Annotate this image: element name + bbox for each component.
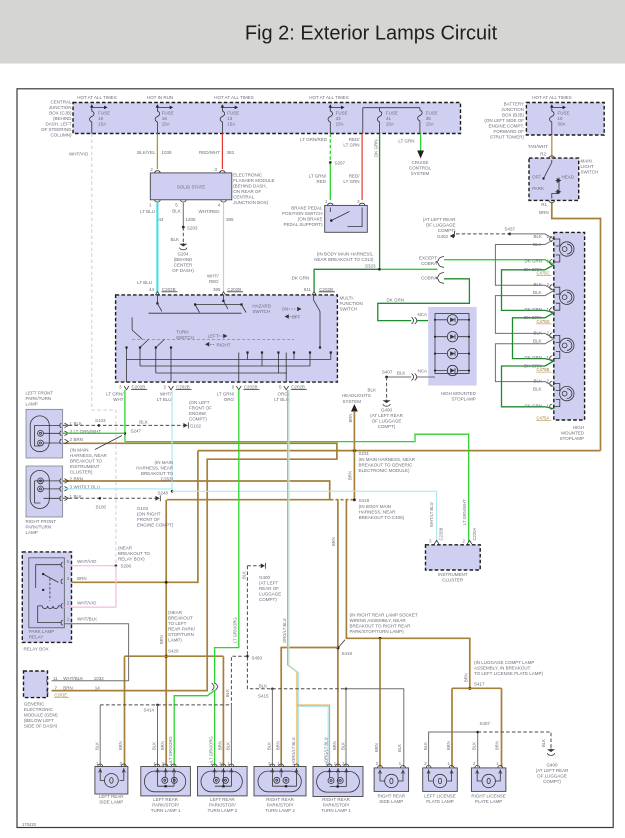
svg-text:13: 13 [227, 116, 233, 121]
svg-text:FRONT OF: FRONT OF [189, 406, 212, 411]
svg-text:HIGH: HIGH [573, 425, 584, 430]
svg-text:S450: S450 [252, 656, 263, 661]
svg-text:CENTRAL: CENTRAL [50, 100, 72, 105]
svg-text:R1: R1 [541, 202, 547, 207]
svg-text:14: 14 [95, 686, 101, 691]
svg-text:S323: S323 [365, 263, 376, 268]
svg-text:HARNESS, NEAR: HARNESS, NEAR [70, 453, 108, 458]
svg-text:WHT/VIO: WHT/VIO [69, 152, 89, 157]
svg-text:PARK LAMP: PARK LAMP [29, 629, 54, 634]
svg-text:DASH, LEFT: DASH, LEFT [45, 122, 71, 127]
svg-text:LAMP): LAMP) [168, 638, 182, 643]
svg-text:S407: S407 [480, 721, 491, 726]
cruise control system [409, 160, 431, 176]
svg-text:RIGHT LICENSE: RIGHT LICENSE [471, 793, 505, 798]
wire WHT/LT BLU lamp to S248 [63, 488, 172, 490]
diode D3 [435, 348, 469, 358]
svg-text:OF STEERING: OF STEERING [41, 127, 72, 132]
svg-text:BRN: BRN [74, 437, 84, 442]
svg-text:BRAKE PEDAL: BRAKE PEDAL [291, 206, 323, 211]
svg-text:(AT LEFT REAR: (AT LEFT REAR [423, 217, 457, 222]
lamp L4 [550, 381, 574, 409]
svg-text:RED/: RED/ [349, 174, 361, 179]
svg-text:BRN: BRN [74, 476, 84, 481]
electronic flasher module U-flasher [150, 173, 232, 200]
G402 ground and S437 dashed [423, 217, 457, 239]
splice S231 [353, 449, 356, 452]
svg-text:RELAY BOX: RELAY BOX [24, 647, 49, 652]
svg-text:C475C: C475C [537, 271, 550, 276]
svg-text:C202B: C202B [319, 287, 333, 292]
svg-text:35: 35 [426, 116, 432, 121]
svg-text:LAMP: LAMP [26, 530, 38, 535]
svg-text:HIGH MOUNTED: HIGH MOUNTED [441, 391, 477, 396]
svg-text:WHT/: WHT/ [160, 391, 172, 396]
svg-text:(NEAR: (NEAR [118, 546, 133, 551]
svg-text:(BEHIND: (BEHIND [174, 257, 193, 262]
svg-text:JUNCTION BOX): JUNCTION BOX) [233, 200, 269, 205]
svg-text:(ON BRAKE: (ON BRAKE [298, 217, 323, 222]
splice S323 on DK GRN [314, 269, 379, 292]
svg-text:BOX (BJB): BOX (BJB) [502, 113, 525, 118]
svg-text:DK GRN: DK GRN [387, 297, 405, 302]
svg-text:15A: 15A [386, 122, 394, 127]
svg-text:BLK: BLK [225, 689, 230, 697]
ground G400 right [548, 749, 553, 752]
svg-text:LEFT REAR: LEFT REAR [99, 794, 124, 799]
svg-text:COMPT): COMPT) [438, 228, 456, 233]
svg-text:BRN: BRN [118, 741, 123, 750]
svg-text:S248: S248 [157, 491, 168, 496]
wire BRN right front lamp to S418 bus [63, 481, 330, 500]
svg-text:S419: S419 [342, 651, 353, 656]
svg-text:(IN BODY MAIN HARNESS,: (IN BODY MAIN HARNESS, [317, 251, 374, 256]
svg-text:OFF: OFF [532, 175, 541, 180]
svg-text:SWITCH: SWITCH [581, 170, 599, 175]
svg-text:TURN LAMP 1: TURN LAMP 1 [151, 808, 181, 813]
left front park/turn lamp [26, 391, 54, 407]
svg-text:HEADLIGHTS: HEADLIGHTS [342, 393, 371, 398]
svg-text:RIGHT: RIGHT [217, 343, 231, 348]
svg-text:BLK: BLK [471, 742, 476, 750]
splice S407 [385, 376, 388, 379]
svg-text:BRN: BRN [539, 210, 549, 215]
svg-text:170420: 170420 [22, 822, 37, 827]
svg-text:RIGHT REAR: RIGHT REAR [266, 797, 294, 802]
fuse 41 [363, 108, 420, 134]
svg-text:S247: S247 [131, 429, 142, 434]
svg-text:MULTI-: MULTI- [340, 296, 355, 301]
wire WHT/LT BLU MFS pin2 down [171, 390, 173, 491]
svg-text:COLUMN): COLUMN) [51, 133, 73, 138]
svg-text:LT GRN/ORG: LT GRN/ORG [233, 617, 238, 643]
diode D2 [435, 332, 469, 342]
svg-text:HAZARD: HAZARD [252, 304, 271, 309]
svg-text:15A: 15A [426, 122, 434, 127]
svg-text:C475A: C475A [537, 415, 550, 420]
svg-text:ORG/LT BLU: ORG/LT BLU [324, 737, 329, 762]
svg-text:BLK: BLK [533, 290, 542, 295]
svg-text:BLK: BLK [533, 387, 542, 392]
wire RED/WHT 383 [221, 134, 223, 170]
svg-text:BLK: BLK [367, 388, 376, 393]
svg-text:STOP/TURN: STOP/TURN [168, 632, 194, 637]
lamp L3 [550, 333, 574, 361]
svg-text:WHT/: WHT/ [207, 274, 219, 279]
svg-text:C202B: C202B [291, 385, 305, 390]
wire LT BLU 44 flasher pin1 to MFS [156, 203, 158, 293]
fuse 33 [0, 0, 1, 1]
svg-text:(BELOW LEFT: (BELOW LEFT [24, 718, 54, 723]
svg-text:BREAKOUT TO RIGHT REAR: BREAKOUT TO RIGHT REAR [350, 624, 412, 629]
chain labels [524, 234, 542, 408]
left rear park/stop/turn lamp 1 [141, 767, 191, 796]
wire BRN relay to bus [64, 451, 198, 583]
svg-text:(IN BODY MAIN: (IN BODY MAIN [359, 504, 391, 509]
svg-text:SIDE LAMP: SIDE LAMP [99, 799, 123, 804]
lamp L2 [550, 285, 574, 313]
splice S420 [165, 655, 168, 658]
svg-text:CONTROL: CONTROL [409, 166, 431, 171]
svg-text:LIGHT: LIGHT [581, 164, 595, 169]
svg-text:BRN: BRN [495, 741, 500, 750]
pin numbers above bottom lamps [96, 761, 499, 766]
svg-text:15A: 15A [98, 122, 106, 127]
svg-text:BRN: BRN [218, 741, 223, 750]
svg-text:BRN: BRN [348, 471, 353, 480]
svg-text:SYSTEM: SYSTEM [411, 171, 430, 176]
wire BLK S103 to G102 [63, 424, 184, 426]
svg-text:BLK: BLK [533, 234, 542, 239]
svg-text:CLUSTER): CLUSTER) [70, 470, 93, 475]
svg-text:(AT LEFT REAR: (AT LEFT REAR [370, 413, 404, 418]
svg-text:1032: 1032 [94, 676, 105, 681]
wire WHT/VIO relay pin5 to S206 [64, 565, 116, 567]
svg-text:RED: RED [316, 179, 326, 184]
svg-text:BLK: BLK [241, 571, 246, 579]
svg-text:LEFT LICENSE: LEFT LICENSE [424, 793, 455, 798]
svg-text:(ON LEFT SIDE OF: (ON LEFT SIDE OF [484, 118, 524, 123]
svg-text:RED/WHT: RED/WHT [199, 150, 220, 155]
battery junction box BJB [526, 103, 604, 136]
ground G400 module [384, 400, 389, 403]
svg-text:C475D: C475D [537, 319, 550, 324]
svg-text:S103: S103 [95, 418, 106, 423]
svg-text:PARK/STOP/: PARK/STOP/ [323, 802, 350, 807]
svg-text:LEFT FRONT: LEFT FRONT [26, 391, 54, 396]
svg-text:LT BLU: LT BLU [274, 397, 289, 402]
svg-text:BATTERY: BATTERY [504, 102, 524, 107]
svg-text:C475B: C475B [537, 367, 550, 372]
svg-text:STOPLAMP: STOPLAMP [560, 436, 584, 441]
svg-text:BRN: BRN [446, 741, 451, 750]
svg-text:WHT/VIO: WHT/VIO [77, 559, 97, 564]
svg-text:R2: R2 [540, 152, 546, 157]
svg-text:CENTRAL: CENTRAL [233, 195, 255, 200]
svg-text:FUSE: FUSE [98, 111, 110, 116]
svg-text:WHT/RED: WHT/RED [199, 209, 221, 214]
right rear park/stop/turn lamp 1 [313, 767, 363, 797]
svg-text:C202B: C202B [176, 385, 190, 390]
svg-text:COMPT): COMPT) [378, 424, 396, 429]
rotated wire labels above bottom lamps [94, 736, 499, 762]
wire BRN to right rear side lamp [379, 637, 382, 640]
svg-text:LT GRN/WHT: LT GRN/WHT [462, 499, 467, 525]
svg-text:BLK: BLK [226, 742, 231, 750]
svg-text:383: 383 [227, 150, 235, 155]
svg-text:BLK: BLK [533, 330, 542, 335]
svg-text:PARK/TURN: PARK/TURN [26, 525, 52, 530]
svg-text:MAIN: MAIN [581, 159, 592, 164]
svg-text:S203: S203 [187, 225, 198, 230]
svg-text:LT GRN: LT GRN [343, 143, 359, 148]
wire LT GRN/RED to S207 [329, 134, 331, 163]
svg-text:BRN: BRN [348, 414, 353, 423]
central junction box CJB [73, 103, 461, 134]
svg-text:BLK: BLK [340, 742, 345, 750]
BLK daisy chain wires [495, 240, 553, 291]
svg-text:S407: S407 [382, 369, 393, 374]
svg-text:FLASHER MODULE: FLASHER MODULE [233, 178, 274, 183]
svg-text:S206: S206 [121, 564, 132, 569]
svg-text:ENGINE COMPT,: ENGINE COMPT, [488, 124, 524, 129]
svg-text:BRN: BRN [275, 741, 280, 750]
svg-text:BREAKOUT TO: BREAKOUT TO [118, 551, 151, 556]
left rear park/stop/turn lamp 2 [198, 767, 248, 796]
svg-text:SOLID STATE: SOLID STATE [177, 185, 206, 190]
svg-text:(AT LEFT: (AT LEFT [259, 581, 278, 586]
DK GRN daisy chain wires [502, 265, 554, 313]
svg-text:RIGHT REAR: RIGHT REAR [322, 797, 350, 802]
svg-text:REAR OF: REAR OF [259, 586, 279, 591]
svg-text:LT GRN: LT GRN [398, 139, 414, 144]
svg-text:511: 511 [304, 287, 312, 292]
svg-text:POSITION SWITCH: POSITION SWITCH [282, 211, 323, 216]
svg-text:HARNESS, NEAR: HARNESS, NEAR [136, 466, 174, 471]
svg-text:PARK/STOP/: PARK/STOP/ [152, 802, 179, 807]
svg-text:G400: G400 [546, 763, 558, 768]
svg-text:FUNCTION: FUNCTION [340, 301, 363, 306]
svg-text:JUNCTION: JUNCTION [501, 107, 524, 112]
svg-text:BLK/YEL: BLK/YEL [137, 150, 156, 155]
svg-text:LEFT: LEFT [208, 334, 219, 339]
svg-text:MOUNTED: MOUNTED [561, 431, 584, 436]
splice S415 [271, 688, 274, 691]
svg-text:ELECTRONIC: ELECTRONIC [24, 707, 54, 712]
svg-text:INSTRUMENT: INSTRUMENT [70, 464, 100, 469]
main light switch [529, 158, 579, 200]
svg-text:G402: G402 [437, 234, 449, 239]
svg-text:TAN/WHT: TAN/WHT [528, 144, 548, 149]
svg-text:BREAKOUT: BREAKOUT [168, 616, 193, 621]
brown park bus horizontal [198, 450, 601, 452]
wire BLK/YEL 1039 [156, 134, 158, 170]
svg-text:385: 385 [226, 217, 234, 222]
svg-text:BLK: BLK [397, 370, 406, 375]
svg-text:BLK: BLK [259, 683, 268, 688]
svg-text:(IN LUGGAGE COMPT LAMP: (IN LUGGAGE COMPT LAMP [474, 660, 534, 665]
svg-text:REAR PARK/: REAR PARK/ [168, 627, 196, 632]
svg-text:S231: S231 [359, 451, 370, 456]
S418 bus [167, 499, 331, 501]
svg-text:ORG: ORG [224, 397, 235, 402]
NCA break upper [412, 317, 417, 324]
svg-text:BREAKOUT TO: BREAKOUT TO [141, 471, 174, 476]
svg-text:BRN: BRN [374, 743, 379, 752]
splice S203 [182, 226, 185, 229]
wire LT GRN to cruise [420, 134, 422, 151]
svg-text:15A: 15A [162, 122, 170, 127]
svg-text:LEFT REAR: LEFT REAR [210, 797, 235, 802]
svg-text:BRN: BRN [332, 741, 337, 750]
svg-text:10: 10 [558, 116, 564, 121]
headlights system arrow [351, 404, 358, 412]
splice S419 [336, 646, 339, 649]
svg-text:BLK: BLK [541, 739, 546, 747]
svg-text:(ON LEFT: (ON LEFT [189, 400, 210, 405]
svg-text:DK GRN: DK GRN [292, 275, 310, 280]
svg-text:BRN: BRN [159, 635, 164, 644]
svg-text:PEDAL SUPPORT): PEDAL SUPPORT) [283, 222, 323, 227]
svg-text:WIRING ASSEMBLY, NEAR: WIRING ASSEMBLY, NEAR [350, 618, 407, 623]
svg-text:CLUSTER: CLUSTER [442, 578, 464, 583]
svg-text:ORG/LT BLU: ORG/LT BLU [291, 737, 296, 762]
svg-text:COBRA: COBRA [421, 275, 437, 280]
svg-text:WHT: WHT [113, 397, 123, 402]
svg-text:FORWARD OF: FORWARD OF [494, 129, 525, 134]
svg-text:BRN: BRN [331, 537, 336, 546]
svg-text:BLK: BLK [533, 282, 542, 287]
svg-text:BLK: BLK [170, 237, 179, 242]
svg-text:COBRA: COBRA [421, 261, 437, 266]
diode D4 [435, 365, 469, 375]
splice S450 [246, 655, 249, 658]
high mounted stoplamp bank (right) [554, 232, 585, 420]
svg-text:FUSE: FUSE [227, 111, 239, 116]
brown vertical to S419 and RR lamp 1 [337, 500, 339, 767]
svg-text:TO LEFT LICENSE PLATE LAMP): TO LEFT LICENSE PLATE LAMP) [474, 671, 544, 676]
svg-text:ASSEMBLY, IN BREAKOUT: ASSEMBLY, IN BREAKOUT [474, 666, 531, 671]
brown vertical to S417 luggage lamps [346, 500, 469, 688]
svg-text:RIGHT FRONT: RIGHT FRONT [26, 519, 57, 524]
S414 dashed ground link [100, 704, 231, 706]
MFS bottom connector row [124, 386, 288, 390]
wire LT GRN/WHT lamp to S247 [63, 432, 125, 434]
svg-text:NEAR BREAKOUT TO C313): NEAR BREAKOUT TO C313) [314, 257, 374, 262]
connector row C202B at MFS top [0, 0, 1, 1]
svg-text:PLATE LAMP: PLATE LAMP [426, 799, 453, 804]
svg-text:ELECTRONIC MODULE): ELECTRONIC MODULE) [359, 468, 411, 473]
svg-text:HOT AT ALL TIMES: HOT AT ALL TIMES [309, 95, 349, 100]
wire BLK S100 to G103 [63, 497, 156, 499]
wire WHT/BLK relay pin1 to GEM [52, 624, 129, 681]
svg-text:(IN MAIN: (IN MAIN [70, 448, 89, 453]
svg-text:INSTRUMENT: INSTRUMENT [438, 572, 468, 577]
svg-text:SWITCH: SWITCH [252, 309, 270, 314]
svg-text:G103: G103 [137, 506, 149, 511]
wire DK GRN cobra to module [378, 279, 470, 321]
svg-text:LUGGAGE: LUGGAGE [259, 592, 281, 597]
splice S248 [171, 490, 174, 493]
ground G103 [155, 496, 159, 501]
svg-text:JUNCTION: JUNCTION [49, 105, 72, 110]
svg-text:ON: ON [282, 307, 289, 312]
svg-text:FUSE: FUSE [558, 111, 570, 116]
wire LT GRN/WHT MFS pin3 down [124, 390, 126, 442]
svg-text:C202B: C202B [132, 385, 146, 390]
svg-text:S437: S437 [505, 227, 516, 232]
svg-text:30A: 30A [558, 122, 566, 127]
svg-text:BLK: BLK [423, 742, 428, 750]
svg-text:FUSE: FUSE [336, 111, 348, 116]
left license plate lamp [423, 768, 458, 792]
svg-text:C263): C263) [161, 477, 174, 482]
wire WHT/RED 385 flasher pin4 to MFS [223, 203, 225, 293]
svg-text:ON REAR OF: ON REAR OF [233, 189, 261, 194]
banner [0, 0, 625, 64]
right license plate lamp [471, 768, 506, 792]
svg-text:PARK/TURN: PARK/TURN [26, 396, 52, 401]
svg-text:HOT IN RUN: HOT IN RUN [147, 95, 173, 100]
svg-text:19: 19 [98, 116, 104, 121]
ground G102 [183, 423, 187, 428]
svg-text:ENGINE: ENGINE [189, 411, 206, 416]
svg-text:33: 33 [336, 116, 342, 121]
svg-text:(IN RIGHT REAR LAMP SOCKET: (IN RIGHT REAR LAMP SOCKET [350, 613, 418, 618]
svg-text:S207: S207 [335, 160, 346, 165]
svg-text:LT GRN: LT GRN [343, 179, 359, 184]
svg-text:BLK: BLK [172, 209, 181, 214]
wire LT GRN/ORG MFS pin9 down [215, 390, 239, 684]
svg-text:NCA: NCA [418, 369, 428, 374]
svg-text:OFF: OFF [292, 315, 301, 320]
svg-text:PLATE LAMP: PLATE LAMP [475, 799, 502, 804]
diode D1 [435, 315, 469, 325]
svg-text:15A: 15A [227, 122, 235, 127]
svg-text:HARNESS, NEAR: HARNESS, NEAR [359, 510, 397, 515]
connector break on LT GRN/ORG [212, 683, 218, 690]
wire BRN S419 to RR lamp 2 [281, 648, 338, 768]
svg-text:MODULE (GEM): MODULE (GEM) [24, 713, 58, 718]
svg-text:BLK: BLK [397, 744, 402, 752]
svg-text:TURN LAMP 1: TURN LAMP 1 [321, 808, 351, 813]
svg-text:TURN LAMP 2: TURN LAMP 2 [207, 808, 237, 813]
svg-text:1039: 1039 [162, 150, 173, 155]
svg-text:WHT/BLK: WHT/BLK [63, 676, 83, 681]
svg-text:OF DASH): OF DASH) [172, 268, 194, 273]
svg-text:RED/: RED/ [349, 137, 361, 142]
wire WHT/LT BLU long to instrument cluster [172, 491, 437, 541]
svg-text:S100: S100 [96, 505, 107, 510]
svg-text:SIDE LAMP: SIDE LAMP [379, 799, 403, 804]
svg-text:LT GRN/: LT GRN/ [309, 174, 327, 179]
brake pedal position switch [325, 205, 368, 232]
svg-text:TURN LAMP 2: TURN LAMP 2 [265, 808, 295, 813]
svg-text:HEAD: HEAD [562, 175, 575, 180]
svg-text:PARK/STOP/: PARK/STOP/ [267, 802, 294, 807]
svg-text:HOT AT ALL TIMES: HOT AT ALL TIMES [532, 95, 572, 100]
svg-text:BLK: BLK [94, 742, 99, 750]
svg-text:S420: S420 [168, 649, 179, 654]
svg-text:RELAY: RELAY [29, 635, 43, 640]
svg-text:BLK: BLK [533, 379, 542, 384]
except cobra / cobra braces [436, 257, 445, 268]
wire WHT/VIO S206 to relay pin2 [64, 566, 116, 607]
svg-text:HOT AT ALL TIMES: HOT AT ALL TIMES [214, 95, 254, 100]
svg-text:(IN MAIN: (IN MAIN [155, 460, 174, 465]
svg-text:OF LUGGAGE: OF LUGGAGE [426, 223, 456, 228]
svg-text:(BEHIND DASH,: (BEHIND DASH, [233, 184, 267, 189]
